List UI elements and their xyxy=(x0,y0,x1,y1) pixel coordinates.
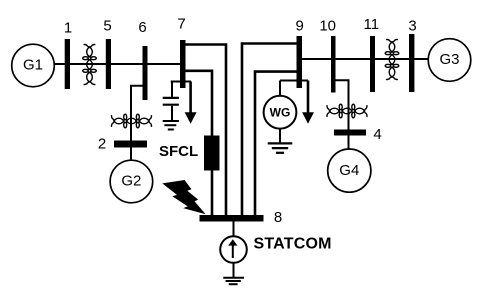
svg-text:9: 9 xyxy=(296,18,304,35)
bus 1 xyxy=(65,39,70,89)
STATCOM source circle xyxy=(220,236,247,263)
bus 5 xyxy=(106,39,111,89)
bus 11 xyxy=(370,36,375,92)
lightning bolt fault symbol xyxy=(162,180,205,214)
svg-text:G1: G1 xyxy=(23,57,43,74)
wire down to WG xyxy=(279,81,281,97)
svg-text:WG: WG xyxy=(270,106,291,120)
bus 6 xyxy=(143,46,148,100)
wire capacitor and load hook below bus 7 xyxy=(171,81,191,83)
wire bus7 upper stub down to bus8 xyxy=(185,45,226,217)
transformer T104 on bus4 branch xyxy=(327,104,367,118)
load arrow at bus 7 xyxy=(185,82,197,124)
wire bus6 stub to bus2 branch xyxy=(131,86,143,141)
wire bus4 to G4 xyxy=(348,136,350,150)
wire bus8 to STATCOM xyxy=(233,222,235,237)
generator G1 xyxy=(12,44,55,87)
transformer T26 on bus2 branch xyxy=(112,114,152,128)
wire bus2 to G2 xyxy=(130,148,132,161)
svg-text:11: 11 xyxy=(364,16,380,33)
svg-text:4: 4 xyxy=(373,126,381,143)
svg-text:G4: G4 xyxy=(339,162,359,179)
SFCL rectangle xyxy=(204,136,220,171)
bus 2 xyxy=(114,141,147,148)
svg-text:10: 10 xyxy=(319,18,336,35)
transformer T113 between bus 11 and bus 3 xyxy=(385,40,399,80)
svg-text:5: 5 xyxy=(103,18,111,35)
wire STATCOM to ground xyxy=(233,263,235,277)
transformer T15 between bus 1 and bus 5 xyxy=(83,45,97,85)
wire bus10 stub down to bus4 xyxy=(336,80,349,130)
wire bus9 upper stub down to bus8 xyxy=(242,44,297,217)
svg-text:SFCL: SFCL xyxy=(159,143,198,160)
svg-text:2: 2 xyxy=(98,136,106,153)
load arrow at bus 9 xyxy=(302,81,314,124)
wire main left bus line xyxy=(54,63,181,65)
wire bus9 lower stub down to bus8 xyxy=(255,72,297,216)
wind generator WG xyxy=(264,96,297,129)
svg-text:STATCOM: STATCOM xyxy=(254,236,332,253)
svg-text:G2: G2 xyxy=(121,173,141,190)
svg-text:G3: G3 xyxy=(439,51,459,68)
bus 3 xyxy=(409,34,414,92)
svg-text:1: 1 xyxy=(64,20,72,37)
svg-text:7: 7 xyxy=(177,16,185,33)
bus 10 xyxy=(331,36,336,93)
generator G2 xyxy=(110,160,153,203)
generator G4 xyxy=(328,149,371,192)
wire bus7 lower stub down through SFCL to bus8 xyxy=(185,71,212,216)
svg-text:8: 8 xyxy=(274,209,282,226)
svg-text:3: 3 xyxy=(408,18,416,35)
svg-text:6: 6 xyxy=(138,19,146,36)
wire WG to ground xyxy=(279,129,281,143)
ground below capacitor xyxy=(163,121,179,130)
generator G3 xyxy=(428,39,471,82)
capacitor C7 xyxy=(163,82,179,121)
bus 8 xyxy=(200,215,264,222)
ground below STATCOM xyxy=(223,278,244,285)
ground below WG xyxy=(268,143,293,152)
bus 7 xyxy=(180,40,186,88)
bus 4 xyxy=(334,130,366,136)
wire main right bus line xyxy=(300,58,429,60)
wire WG and load stub through bus9 xyxy=(280,80,308,82)
bus 9 xyxy=(297,36,303,88)
